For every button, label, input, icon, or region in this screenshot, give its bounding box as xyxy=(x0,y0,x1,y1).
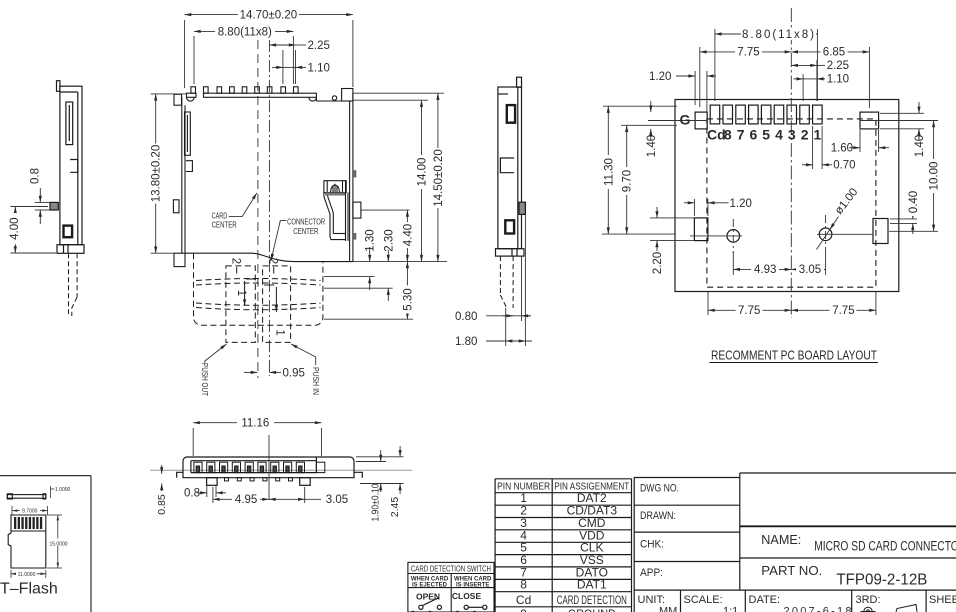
svg-text:2.25: 2.25 xyxy=(308,40,330,52)
svg-text:5: 5 xyxy=(762,127,770,143)
svg-text:1: 1 xyxy=(814,127,822,143)
svg-text:3.05: 3.05 xyxy=(326,494,348,506)
svg-text:CARD: CARD xyxy=(212,212,228,221)
svg-text:4: 4 xyxy=(775,127,783,143)
svg-text:9: 9 xyxy=(520,607,527,612)
svg-text:GROUND: GROUND xyxy=(568,607,616,612)
svg-text:IS EJECTED: IS EJECTED xyxy=(412,583,448,589)
svg-text:7.75: 7.75 xyxy=(738,305,760,317)
svg-text:DWG NO.: DWG NO. xyxy=(640,483,679,495)
svg-text:SHEET: SHEET xyxy=(929,594,956,606)
svg-text:1.90±0.10: 1.90±0.10 xyxy=(371,483,382,521)
svg-text:0.80: 0.80 xyxy=(455,311,477,323)
svg-text:3.05: 3.05 xyxy=(799,264,821,276)
svg-text:1.40: 1.40 xyxy=(646,135,658,157)
svg-text:6.85: 6.85 xyxy=(823,47,845,59)
svg-text:8.80(11x8): 8.80(11x8) xyxy=(218,26,272,38)
svg-text:1.40: 1.40 xyxy=(914,135,926,157)
svg-text:CARD DETECTION: CARD DETECTION xyxy=(557,593,627,607)
svg-text:0.8: 0.8 xyxy=(30,168,42,184)
svg-text:11.16: 11.16 xyxy=(241,418,269,430)
svg-text:14.50±0.20: 14.50±0.20 xyxy=(433,149,445,206)
svg-text:10.00: 10.00 xyxy=(929,162,941,191)
svg-text:2: 2 xyxy=(801,127,809,143)
svg-text:9.7000: 9.7000 xyxy=(22,509,38,515)
svg-text:DAT1: DAT1 xyxy=(577,578,607,592)
svg-text:4.95: 4.95 xyxy=(235,494,257,506)
svg-text:DATE:: DATE: xyxy=(749,594,781,606)
svg-text:PART NO.: PART NO. xyxy=(761,563,822,578)
svg-text:0.8: 0.8 xyxy=(184,487,200,499)
svg-text:8: 8 xyxy=(520,578,527,592)
svg-text:15.0000: 15.0000 xyxy=(49,541,67,547)
svg-text:8.80(11x8): 8.80(11x8) xyxy=(742,29,814,41)
svg-text:4.93: 4.93 xyxy=(754,264,776,276)
svg-text:0.85: 0.85 xyxy=(156,494,168,515)
svg-text:1.80: 1.80 xyxy=(455,336,477,348)
svg-text:Cd: Cd xyxy=(516,593,531,607)
svg-text:IS INSERTE: IS INSERTE xyxy=(456,583,489,589)
svg-text:CENTER: CENTER xyxy=(212,220,237,229)
svg-text:2.25: 2.25 xyxy=(827,60,849,72)
svg-text:PUSH OUT: PUSH OUT xyxy=(200,363,209,396)
svg-text:MICRO SD CARD CONNECTOR: MICRO SD CARD CONNECTOR xyxy=(814,539,956,554)
svg-text:1.0000: 1.0000 xyxy=(55,487,71,493)
svg-text:14.00: 14.00 xyxy=(417,158,429,187)
svg-text:CARD DETECTION SWITCH: CARD DETECTION SWITCH xyxy=(411,563,491,573)
svg-text:1.30: 1.30 xyxy=(365,229,377,251)
svg-text:0.40: 0.40 xyxy=(908,191,920,213)
svg-text:WHEN CARD: WHEN CARD xyxy=(411,577,449,583)
svg-text:6: 6 xyxy=(750,127,758,143)
svg-text:APP:: APP: xyxy=(640,567,663,579)
svg-text:13.80±0.20: 13.80±0.20 xyxy=(151,145,163,202)
svg-text:WHEN CARD: WHEN CARD xyxy=(454,577,492,583)
svg-text:3: 3 xyxy=(788,127,796,143)
svg-text:7: 7 xyxy=(737,127,745,143)
svg-text:11.30: 11.30 xyxy=(603,158,615,186)
svg-text:2007-6-18: 2007-6-18 xyxy=(784,606,852,612)
svg-text:5.30: 5.30 xyxy=(402,288,414,310)
svg-text:G: G xyxy=(680,112,691,128)
svg-text:TFP09-2-12B: TFP09-2-12B xyxy=(836,572,927,589)
svg-text:2.20: 2.20 xyxy=(652,252,664,274)
svg-text:8: 8 xyxy=(724,127,732,143)
svg-text:2.45: 2.45 xyxy=(389,497,401,518)
svg-text:3RD:: 3RD: xyxy=(856,594,881,606)
svg-text:CHK:: CHK: xyxy=(640,539,664,551)
svg-text:0.95: 0.95 xyxy=(283,368,305,380)
svg-text:2.30: 2.30 xyxy=(383,229,395,251)
svg-text:1:1: 1:1 xyxy=(723,606,738,612)
svg-text:14.70±0.20: 14.70±0.20 xyxy=(240,10,297,22)
svg-text:4.40: 4.40 xyxy=(402,224,414,246)
svg-text:SCALE:: SCALE: xyxy=(684,594,723,606)
svg-text:1: 1 xyxy=(273,329,285,335)
svg-text:0.70: 0.70 xyxy=(833,160,855,172)
svg-text:RECOMMENT PC BOARD LAYOUT: RECOMMENT PC BOARD LAYOUT xyxy=(711,348,877,363)
svg-text:2: 2 xyxy=(230,258,242,264)
svg-text:1.20: 1.20 xyxy=(649,71,671,83)
svg-text:1.10: 1.10 xyxy=(308,62,330,74)
svg-text:2: 2 xyxy=(267,258,279,264)
svg-text:Cd: Cd xyxy=(707,127,726,143)
svg-text:MM: MM xyxy=(659,606,677,612)
svg-text:9.70: 9.70 xyxy=(622,170,634,192)
svg-text:1: 1 xyxy=(235,290,247,296)
svg-text:1.10: 1.10 xyxy=(827,74,849,86)
svg-text:4.00: 4.00 xyxy=(9,218,21,240)
svg-text:T–Flash: T–Flash xyxy=(0,581,58,598)
svg-text:1.20: 1.20 xyxy=(730,198,752,210)
svg-text:CENTER: CENTER xyxy=(293,227,318,236)
svg-text:7.75: 7.75 xyxy=(832,305,854,317)
svg-text:1.60: 1.60 xyxy=(831,143,853,155)
svg-text:NAME:: NAME: xyxy=(761,533,801,547)
svg-text:OPEN: OPEN xyxy=(416,592,440,602)
svg-text:7.75: 7.75 xyxy=(737,47,759,59)
svg-text:11.0000: 11.0000 xyxy=(18,572,36,578)
svg-text:DRAWN:: DRAWN: xyxy=(640,510,676,522)
svg-text:PUSH IN: PUSH IN xyxy=(311,367,320,395)
svg-text:UNIT:: UNIT: xyxy=(638,594,666,606)
svg-text:CLOSE: CLOSE xyxy=(452,591,482,601)
svg-text:CONNECTOR: CONNECTOR xyxy=(287,218,325,227)
